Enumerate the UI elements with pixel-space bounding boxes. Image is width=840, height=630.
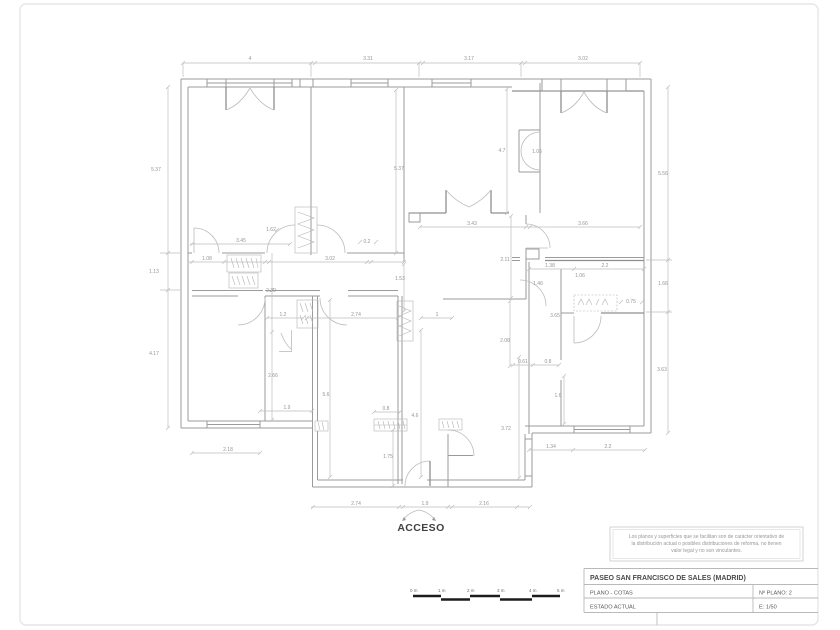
door interior entrance hall [448,430,474,456]
closet doors right corridor [521,132,540,170]
svg-text:2.74: 2.74 [351,501,361,507]
svg-text:0 m: 0 m [410,588,418,593]
svg-text:PASEO SAN FRANCISCO DE SALES: PASEO SAN FRANCISCO DE SALES (MADRID) [590,575,746,582]
interior stub wall entrance [447,434,449,487]
wall top outer [181,78,651,80]
partition hall top-right room left wall [539,83,541,213]
dim 0.75 [619,299,644,305]
radiator R8 [315,421,328,431]
pillar box hall SE corner [526,249,539,259]
window bottom-right [574,426,630,433]
dim 1.2 [265,312,305,320]
svg-text:3.43: 3.43 [467,221,477,227]
svg-text:3 m: 3 m [497,588,505,593]
wall left inner [187,87,189,421]
wall right inner [643,91,645,426]
pier at hall top-left [409,213,420,222]
dim 1.6 [555,374,566,426]
svg-text:3.66: 3.66 [578,221,588,227]
dim 1.62 [266,227,279,233]
svg-text:2.11: 2.11 [500,257,510,263]
svg-text:la distribución actual o posib: la distribución actual o posibles distri… [631,541,781,547]
door corridor to lower room [320,298,347,325]
wall protrusion right [524,434,526,480]
svg-text:4.17: 4.17 [149,351,159,357]
dim interior 5.37 [394,88,404,255]
svg-text:ESTADO ACTUAL: ESTADO ACTUAL [590,605,636,611]
svg-text:1.05: 1.05 [532,149,542,155]
scale bar labels [410,588,565,593]
wall protrusion left double [312,296,314,487]
dim chain bottom [311,501,532,509]
radiator R1 closet [227,255,261,288]
dim 2.11 [500,214,513,300]
closet stub walls right corridor [519,129,540,131]
window protrusion right [525,439,532,476]
svg-text:3.65: 3.65 [550,313,560,319]
dim 2.08 [500,299,512,368]
dim 2.74 mid [305,312,400,320]
svg-text:2.2: 2.2 [605,444,612,450]
door corridor left of shaft [267,225,345,253]
door hall right [526,224,550,248]
svg-text:1.13: 1.13 [149,269,159,275]
svg-text:4 m: 4 m [529,588,537,593]
partition room2/room3 [403,87,405,262]
hall bottom wall [443,298,526,300]
svg-text:Nº PLANO: 2: Nº PLANO: 2 [759,590,792,597]
wall below top-right room [512,257,520,259]
dim 2.39 [266,253,276,422]
window top w2 [300,79,313,87]
dim 2.18 [190,447,262,455]
svg-text:5.37: 5.37 [394,166,404,172]
dim 1.53 [395,262,406,313]
dim chain bottom right [527,444,647,452]
disclaimer text [629,534,785,554]
svg-text:0.75: 0.75 [626,299,636,305]
svg-text:1.2: 1.2 [280,312,287,318]
wall y313 lower right [561,312,574,314]
dim chain top [181,56,642,77]
dim 0.2 [358,239,378,245]
title block grid [584,569,818,626]
svg-text:1.08: 1.08 [202,256,212,262]
partition room1/room2 [310,87,312,255]
window top-right w6 [607,79,626,91]
svg-text:valor legal y no son vinculant: valor legal y no son vinculantes. [671,548,742,554]
svg-text:2.16: 2.16 [479,501,489,507]
door lower right small [520,280,546,306]
svg-text:1.62: 1.62 [266,227,276,233]
svg-text:2.18: 2.18 [223,447,233,453]
dim 3.43 3.66 [418,221,642,229]
door room1 [194,228,219,253]
dim 1 hall [419,312,454,320]
dim chain corridor y262 [188,256,406,264]
corridor bottom wall left [192,290,263,292]
dim 1.38 2.2 [527,263,646,271]
svg-text:2 m: 2 m [467,588,475,593]
dim 3.72 [501,355,521,480]
svg-text:2.74: 2.74 [351,312,361,318]
radiator R7 [574,295,617,311]
hall right wall [525,215,527,224]
svg-text:1.9: 1.9 [284,405,291,411]
svg-text:3.63: 3.63 [657,367,667,373]
svg-text:0.8: 0.8 [383,406,390,412]
dim 3.65 [550,313,560,319]
wall room3 bottom with door opening [409,212,446,214]
svg-text:4.6: 4.6 [412,413,419,419]
svg-text:4: 4 [249,56,252,62]
radiator R5 [374,419,407,431]
wall top inner right part [512,90,644,92]
disclaimer box inner [613,530,800,559]
wall bottom-left outer [181,427,313,429]
svg-text:3.72: 3.72 [501,426,511,432]
dim 1.06 [575,273,585,279]
wall bottom-right inner [525,425,574,427]
dim chain right [646,85,672,435]
door entrance [405,461,430,486]
partition lower-left rooms [264,296,266,421]
dim 5.6 [323,298,332,479]
svg-text:2.2: 2.2 [602,263,609,269]
svg-text:5.6: 5.6 [323,392,330,398]
svg-text:4.7: 4.7 [499,148,506,154]
dim chain left [149,85,180,430]
entrance hall left wall [397,296,399,484]
svg-text:1.6: 1.6 [555,393,562,399]
svg-text:0.61: 0.61 [518,359,528,365]
dim 0.61 0.8 [511,359,561,367]
svg-text:ACCESO: ACCESO [397,522,444,534]
door french top-left leaves [226,87,274,110]
window bottom-left [207,421,260,428]
svg-text:2.08: 2.08 [500,338,510,344]
window top-right w5 [542,79,561,91]
svg-text:1.53: 1.53 [395,276,405,282]
dim 4.7 [499,87,509,215]
door double hall [446,190,491,213]
svg-text:1: 1 [436,312,439,318]
svg-text:1.9: 1.9 [422,501,429,507]
svg-text:3.31: 3.31 [363,56,373,62]
scale bar segments [413,596,560,600]
door leaf small lower-left [279,330,292,352]
svg-text:1 m: 1 m [438,588,446,593]
svg-text:5.56: 5.56 [658,171,668,177]
svg-text:E: 1/50: E: 1/50 [759,605,777,611]
wall top inner left part [188,86,207,88]
window top w3 [351,79,388,87]
dim 1.9 left [258,405,314,413]
partition x561 lower right [560,269,562,360]
svg-text:2.66: 2.66 [268,373,278,379]
svg-text:3.45: 3.45 [236,238,246,244]
door bottom-right room [574,316,601,343]
entrance swing symbol [403,510,435,520]
dim 3.45 [190,238,292,246]
wall bottom-right outer [532,432,651,434]
svg-text:0.2: 0.2 [364,239,371,245]
svg-text:1.06: 1.06 [575,273,585,279]
radiator R6 [439,419,462,430]
svg-text:1.75: 1.75 [383,454,393,460]
svg-text:3.02: 3.02 [578,56,588,62]
svg-text:1.66: 1.66 [658,281,668,287]
dim 0.8 mid [372,406,402,414]
disclaimer box outer [610,527,803,561]
svg-text:PLANO - COTAS: PLANO - COTAS [590,591,633,597]
svg-text:0.8: 0.8 [545,359,552,365]
door french top-right leaves [561,91,607,113]
svg-text:1.34: 1.34 [546,444,556,450]
svg-text:3.17: 3.17 [464,56,474,62]
door lower-left room [238,298,265,325]
svg-text:1.38: 1.38 [545,263,555,269]
wall protrusion bottom [313,486,533,488]
svg-text:1.46: 1.46 [533,281,543,287]
wall left outer [180,79,182,428]
dim 1.46 [533,281,543,287]
svg-text:Los planos y superficies que s: Los planos y superficies que se facilita… [629,534,785,540]
structural wall x529 [528,262,530,434]
radiator R2 shaft [295,207,317,253]
svg-text:3.02: 3.02 [325,256,335,262]
dim 1.05 [532,149,542,155]
window top w4 [432,79,471,87]
wall right outer [650,79,652,433]
wall bottom-left inner [188,420,313,422]
dim 2.66 [268,373,278,379]
window top w1 [207,79,292,87]
corridor top wall [188,252,192,254]
radiator R4 [297,300,318,328]
svg-text:5.37: 5.37 [151,167,161,173]
svg-text:2.39: 2.39 [266,288,276,294]
svg-text:5 m: 5 m [557,588,565,593]
radiator R3 shaft2 [397,301,413,341]
dim 1.75 [383,428,395,488]
dim 4.6 [412,328,423,479]
